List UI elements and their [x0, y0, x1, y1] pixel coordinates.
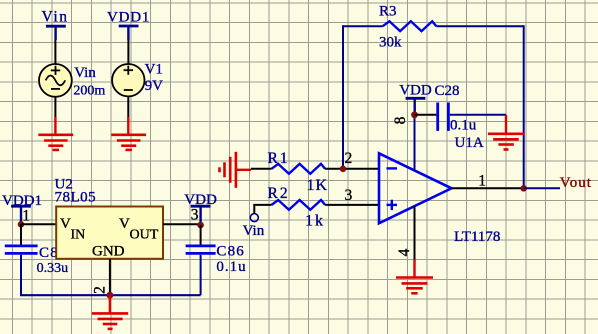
svg-text:200m: 200m	[73, 84, 105, 99]
pin 8 wire	[414, 115, 416, 171]
svg-text:30k: 30k	[379, 35, 402, 51]
source V1 9V	[112, 62, 163, 97]
wire feedback top	[343, 25, 524, 188]
pin 1 wire	[452, 187, 524, 189]
svg-text:2: 2	[92, 286, 109, 294]
power port VDD (op-amp)	[399, 82, 432, 114]
svg-text:0.1u: 0.1u	[216, 259, 246, 275]
svg-text:V: V	[119, 216, 130, 232]
svg-text:1k: 1k	[305, 212, 325, 229]
ground (U2)	[92, 295, 128, 329]
wire bottom rail	[20, 294, 201, 296]
ground	[38, 117, 73, 150]
svg-text:VDD1: VDD1	[107, 10, 150, 26]
resistor R3 30k	[379, 4, 436, 51]
regulator U2 78L05	[55, 176, 164, 259]
svg-text:LT1178: LT1178	[454, 229, 500, 245]
resistor R2 1k	[268, 185, 326, 229]
wire	[325, 168, 379, 170]
junction node pin 8 / VDD	[411, 111, 418, 118]
svg-text:Vin: Vin	[74, 65, 96, 81]
pin 4 wire	[414, 206, 416, 260]
svg-text:Vin: Vin	[243, 223, 265, 239]
svg-text:GND: GND	[92, 243, 125, 259]
wire	[54, 40, 56, 65]
wire	[415, 114, 437, 116]
capacitor C28 0.1u	[435, 83, 477, 133]
ground	[111, 117, 146, 150]
node Vin (open terminal)	[243, 214, 265, 239]
svg-text:78L05: 78L05	[55, 190, 97, 206]
svg-text:VDD: VDD	[399, 82, 432, 98]
svg-text:0.1u: 0.1u	[450, 117, 477, 133]
svg-text:C86: C86	[216, 243, 245, 259]
resistor R1 1K	[268, 150, 329, 194]
junction node pin 1	[18, 221, 25, 228]
svg-text:0.33u: 0.33u	[37, 261, 69, 276]
svg-text:U1A: U1A	[455, 135, 484, 151]
wire GND pin	[109, 259, 111, 295]
wire	[524, 187, 560, 189]
svg-text:1: 1	[478, 173, 486, 190]
ground (sideways, R1 input)	[220, 152, 252, 188]
power port VDD1 (top)	[107, 10, 150, 41]
power port VDD (right of U2)	[184, 192, 217, 225]
junction node Vout	[520, 185, 527, 192]
junction node GND	[107, 292, 114, 299]
wire pin 3	[163, 223, 201, 225]
wire	[21, 223, 56, 225]
ground (pin 4)	[396, 260, 433, 294]
capacitor C85 0.33u	[5, 224, 68, 295]
wire	[251, 168, 272, 170]
svg-text:1: 1	[22, 208, 30, 225]
op-amp U1A LT1178	[379, 135, 500, 245]
svg-text:4: 4	[396, 248, 413, 256]
svg-text:C28: C28	[435, 83, 460, 99]
junction node pin 3	[197, 222, 204, 229]
svg-text:Vout: Vout	[560, 175, 592, 191]
svg-text:2: 2	[345, 150, 353, 167]
svg-text:V: V	[60, 216, 71, 232]
wire	[54, 97, 56, 118]
svg-text:1K: 1K	[307, 177, 329, 194]
wire	[127, 96, 129, 117]
ground (C28)	[488, 115, 524, 150]
svg-text:IN: IN	[71, 228, 86, 243]
svg-text:3: 3	[191, 207, 199, 224]
svg-text:R3: R3	[379, 4, 397, 20]
svg-text:3: 3	[345, 187, 353, 204]
source Vin (sine source)	[39, 64, 105, 99]
svg-text:8: 8	[392, 116, 409, 124]
svg-text:OUT: OUT	[130, 228, 159, 243]
wire	[450, 114, 506, 116]
power port VDD1 (left)	[2, 193, 42, 224]
capacitor C86 0.1u	[186, 225, 247, 295]
svg-text:9V: 9V	[145, 78, 164, 94]
power port Vin	[42, 9, 69, 41]
wire	[325, 204, 379, 206]
junction node at pin 2	[340, 166, 347, 173]
wire	[253, 205, 271, 214]
svg-text:Vin: Vin	[42, 9, 69, 26]
svg-text:V1: V1	[145, 62, 163, 78]
wire	[127, 40, 129, 65]
